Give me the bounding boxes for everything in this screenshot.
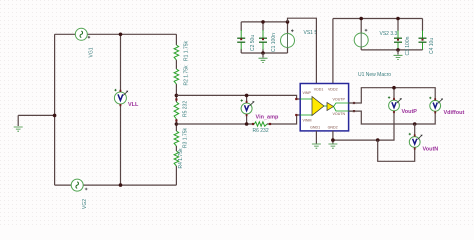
svg-text:R1 1.75k: R1 1.75k	[184, 40, 190, 61]
wire: VS1 to VDD1	[288, 18, 317, 83]
capacitor C1	[262, 30, 264, 38]
wire: GND2 net to VoutP	[333, 111, 394, 140]
node: VS2 top junction	[359, 17, 363, 21]
op-amp main triangle	[312, 97, 324, 116]
terminal tick VINP	[295, 98, 297, 100]
wire: VOUTP net	[349, 88, 436, 103]
capacitor C4	[422, 31, 424, 39]
resistor R5	[174, 102, 179, 119]
terminal tick VOUTN	[353, 110, 355, 112]
svg-text:VDD1: VDD1	[314, 88, 324, 92]
svg-text:VDD2: VDD2	[328, 88, 338, 92]
svg-text:R5 232: R5 232	[183, 101, 189, 117]
voltage generator VG1	[75, 28, 87, 40]
wire: C4 column	[422, 19, 424, 50]
svg-text:VLL: VLL	[128, 102, 139, 108]
node: left rail / ground junction	[53, 114, 57, 118]
macro pin line VOUTN	[334, 107, 349, 112]
wire: VS1 stubs	[287, 22, 289, 53]
wire: top rail VG1	[55, 33, 177, 35]
svg-text:VoutP: VoutP	[402, 109, 418, 115]
voltmeter VoutN	[409, 137, 420, 148]
wire: VS2 stubs	[360, 19, 362, 50]
wire: triangle link	[324, 105, 327, 107]
ground VS1 block	[259, 58, 268, 62]
node: bottom rail / VLL junction	[119, 183, 123, 187]
wire: resistor chain vertical segments	[175, 34, 177, 185]
wire: GND2 stub	[332, 131, 334, 144]
wire: VDD2 drop	[332, 19, 334, 84]
wire: VS1 block bottom	[241, 52, 287, 54]
node: VoutN return junction	[376, 138, 380, 142]
wire: left vertical rail	[54, 34, 56, 185]
terminal tick VINM	[295, 114, 297, 116]
voltmeter Vin_amp	[241, 103, 252, 114]
node: VS1 top junction	[286, 20, 290, 24]
wire: C1 column	[262, 22, 264, 53]
node: VoutN top junction	[413, 122, 417, 126]
svg-text:VG2: VG2	[82, 199, 88, 209]
svg-text:C3 100n: C3 100n	[405, 36, 411, 55]
node: C3 top junction	[396, 17, 400, 21]
node: GND2 junction	[331, 138, 335, 142]
svg-text:VoutN: VoutN	[423, 147, 439, 153]
wire: VS2 block top	[333, 18, 423, 20]
voltmeter VLL	[114, 92, 126, 104]
svg-text:C4 10u: C4 10u	[429, 38, 435, 54]
terminal ticks R6	[252, 123, 254, 125]
svg-text:VOUTP: VOUTP	[333, 98, 346, 102]
terminal ticks R5	[175, 98, 177, 100]
svg-text:R2 1.75k: R2 1.75k	[184, 65, 190, 86]
svg-text:Vin_amp: Vin_amp	[256, 115, 279, 121]
ground GND2	[328, 144, 337, 148]
ground GND1	[312, 144, 321, 148]
voltmeter Vdiffout	[430, 100, 441, 111]
svg-text:VS2 3.3: VS2 3.3	[380, 31, 398, 37]
node: C1 top junction	[261, 20, 265, 24]
op-amp macro U1 box	[300, 84, 348, 131]
wire: bottom rail VG2	[55, 184, 177, 186]
svg-text:VOUTN: VOUTN	[333, 112, 346, 116]
macro pin line VINP	[300, 98, 312, 100]
wire: VoutN return loop	[378, 140, 415, 161]
voltmeter VoutP	[389, 100, 400, 111]
resistor R3	[174, 131, 179, 146]
svg-text:R6 232: R6 232	[253, 128, 269, 134]
wire: ground stub VS2 block	[397, 50, 399, 55]
svg-text:C2 50u: C2 50u	[250, 35, 256, 51]
resistor R2	[174, 69, 179, 84]
node: chain to VINP wire junction	[175, 94, 179, 98]
resistor R6	[254, 122, 267, 126]
svg-text:VINM: VINM	[303, 119, 312, 123]
svg-text:R4 1.75k: R4 1.75k	[178, 148, 184, 169]
resistor R1	[174, 45, 179, 60]
svg-text:U1 New Macro: U1 New Macro	[358, 72, 391, 78]
ground left	[14, 127, 23, 131]
wire: VINM net to macro	[176, 115, 300, 124]
node: chain to VINM wire junction	[175, 122, 179, 126]
wire: VoutN top stub	[414, 124, 416, 137]
wire: C2 column	[240, 22, 242, 53]
macro pin line VINM	[300, 114, 312, 116]
capacitor C2	[240, 30, 242, 38]
capacitor C3	[397, 31, 399, 39]
macro pin stub VOUTN outside	[349, 110, 354, 112]
wire: C3 column	[397, 19, 399, 50]
wire: ground branch left	[18, 115, 54, 126]
wire: Vin_amp stubs	[246, 95, 248, 124]
op-amp buffer triangle	[327, 103, 334, 111]
svg-text:R3 1.75k: R3 1.75k	[183, 127, 189, 148]
svg-text:VINP: VINP	[303, 91, 312, 95]
svg-text:GND1: GND1	[310, 126, 320, 130]
voltage source VS2	[354, 33, 368, 47]
svg-text:VS1 5: VS1 5	[304, 30, 318, 36]
ground VS2 block	[394, 55, 403, 59]
wire: VLL rail	[120, 34, 122, 185]
wire: VINP net to macro	[176, 95, 300, 99]
wire: VS2 block bottom	[361, 49, 422, 51]
svg-text:GND2: GND2	[328, 126, 338, 130]
svg-text:Vdiffout: Vdiffout	[444, 110, 465, 116]
voltage generator VG2	[71, 179, 83, 191]
macro pin line VOUTP	[334, 103, 349, 107]
terminal tick VOUTP	[353, 102, 355, 104]
wire: GND1 stub	[315, 131, 317, 144]
node: Vin_amp bottom junction	[245, 122, 249, 126]
node: Vin_amp top junction	[245, 94, 249, 98]
wire: VoutP top stub	[393, 88, 395, 100]
node: VoutP top junction	[392, 86, 396, 90]
wire: VS1 block top	[241, 21, 287, 23]
node: top rail / VLL junction	[119, 33, 123, 37]
node: C1 bottom junction	[261, 51, 265, 55]
svg-text:VG1: VG1	[89, 47, 95, 57]
node: C3 bottom junction	[396, 48, 400, 52]
wire: ground stub VS1 block	[262, 53, 264, 58]
voltage source VS1	[281, 34, 295, 48]
wire: VOUTN net	[349, 111, 436, 124]
macro pin stub VOUTP outside	[349, 102, 354, 104]
svg-text:C1 100n: C1 100n	[271, 33, 277, 52]
resistor R4	[174, 151, 179, 166]
